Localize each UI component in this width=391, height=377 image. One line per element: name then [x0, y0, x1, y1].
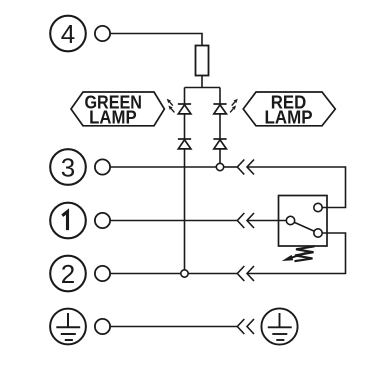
ground PE terminal right: [261, 308, 297, 344]
wire line 2 middle: [188, 273, 237, 275]
wire ground line: [110, 326, 237, 328]
terminal 3: [50, 149, 86, 185]
terminal 4 connector point: [95, 26, 110, 41]
wire line 3 to connector: [224, 166, 238, 168]
LED D3 red: [213, 104, 226, 114]
resistor R1: [196, 46, 209, 76]
wire left branch long vertical to line2 junction: [184, 149, 186, 270]
wire line 3 right to switch top contact: [247, 167, 346, 208]
terminal 2: [50, 256, 86, 292]
switch blade: [294, 222, 314, 231]
switch S1 enclosure box: [279, 196, 328, 247]
connector chevrons line 2: [237, 266, 244, 281]
node junction left branch on line 2: [181, 270, 188, 277]
wire line 1 left: [110, 220, 237, 222]
switch bottom contact: [314, 229, 322, 237]
svg-text:3: 3: [61, 153, 75, 183]
node junction right branch on line 3: [216, 163, 223, 170]
wire left branch middle: [184, 114, 186, 139]
ground PE terminal left: [50, 309, 86, 345]
wire line 3 left: [110, 166, 216, 168]
LED D1 light arrows: [167, 99, 175, 113]
connector chevrons line 1: [237, 213, 244, 228]
wire left branch upper: [184, 88, 186, 105]
terminal 3 connector point: [95, 159, 110, 174]
svg-text:4: 4: [61, 19, 75, 49]
RED LAMP label hexagon: [243, 92, 335, 126]
ground connector point: [95, 319, 110, 334]
terminal 1: [50, 203, 86, 239]
connector chevrons line 3: [237, 160, 244, 175]
terminal 4: [50, 16, 86, 52]
wire line 1 right to switch common contact: [247, 220, 286, 222]
wire right branch middle: [219, 114, 221, 139]
switch common contact: [286, 216, 294, 224]
connector chevrons ground line: [237, 319, 244, 334]
wire right branch lower: [219, 149, 221, 163]
switch top contact: [314, 203, 322, 211]
wire resistor to branch split: [201, 76, 203, 88]
terminal 1 connector point: [95, 213, 110, 228]
svg-text:LAMP: LAMP: [89, 107, 137, 127]
terminal 2 connector point: [95, 266, 110, 281]
wire branch split bar: [185, 87, 221, 89]
diode D4: [213, 139, 226, 149]
wire right branch upper: [219, 88, 221, 105]
LED D1 green: [178, 104, 191, 114]
wire line 2 right to switch bottom contact: [247, 233, 346, 274]
GREEN LAMP label hexagon: [71, 92, 164, 126]
svg-text:LAMP: LAMP: [265, 107, 313, 127]
wire terminal4 to resistor: [110, 34, 202, 46]
wire line 2 left: [110, 273, 181, 275]
svg-text:2: 2: [61, 259, 75, 289]
LED D3 light arrows: [230, 99, 238, 113]
diode D2: [178, 139, 191, 149]
thermal actuator zigzag arrow: [282, 246, 315, 261]
